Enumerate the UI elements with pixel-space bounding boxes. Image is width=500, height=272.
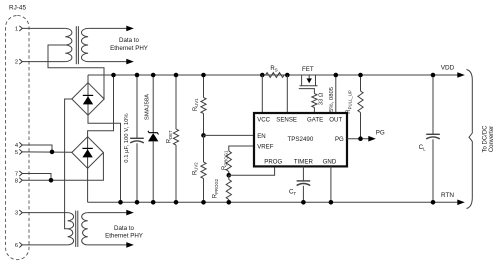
svg-text:PROG: PROG bbox=[264, 158, 282, 165]
resistor RPULL_UP bbox=[360, 75, 362, 91]
wire pins 4/5 to D2 left corner bbox=[22, 151, 72, 153]
RTN arrow bbox=[457, 200, 465, 206]
svg-text:RUV2: RUV2 bbox=[192, 162, 198, 175]
pin stub GND bbox=[330, 166, 332, 202]
svg-text:SENSE: SENSE bbox=[276, 117, 297, 124]
svg-text:Data to: Data to bbox=[114, 225, 135, 232]
svg-text:RUV1: RUV1 bbox=[193, 98, 199, 111]
transformer T1 core bbox=[75, 26, 77, 64]
wire PG output bbox=[347, 138, 369, 140]
node EN junction bbox=[201, 133, 206, 138]
svg-text:GATE: GATE bbox=[307, 117, 323, 124]
wire D1 - output to bottom bus bbox=[88, 115, 121, 202]
resistor RPROG1 bbox=[226, 151, 231, 172]
svg-text:RPROG2: RPROG2 bbox=[213, 178, 219, 198]
resistor RPROG2 bbox=[228, 175, 230, 179]
gate resistor 33 ohm bbox=[312, 94, 317, 108]
svg-text:RS: RS bbox=[270, 66, 277, 72]
svg-text:33 Ω: 33 Ω bbox=[319, 92, 325, 105]
capacitor CL bbox=[432, 75, 434, 134]
wire pin7 bend bbox=[22, 174, 51, 181]
svg-text:RPROG1: RPROG1 bbox=[222, 150, 228, 170]
wire D1 left corner to T2 center tap bbox=[65, 99, 72, 229]
pin stub OUT bbox=[335, 75, 337, 113]
wire D2 - output to bottom bus bbox=[87, 168, 89, 202]
wire PROG bbox=[229, 166, 275, 175]
bottom bus (RTN rail) bbox=[88, 201, 458, 203]
brace to DC/DC converter bbox=[467, 70, 473, 209]
sense resistor RS bbox=[266, 73, 285, 78]
wire T1 center tap to bridge D1 right corner bbox=[48, 45, 104, 99]
svg-text:7: 7 bbox=[15, 172, 18, 178]
transformer T2 primary winding bbox=[68, 213, 74, 245]
wire VREF to RPROG1 bbox=[229, 146, 254, 151]
wire EN bbox=[204, 134, 255, 136]
wire pin1 to T1 top bbox=[22, 27, 65, 29]
wire T1 secondary bottom to PHY arrow bbox=[88, 61, 126, 63]
svg-text:PG: PG bbox=[335, 136, 344, 143]
svg-text:VCC: VCC bbox=[257, 117, 270, 124]
pin stub TIMER / capacitor CT bbox=[302, 166, 304, 181]
resistor RUV1 bbox=[203, 75, 205, 98]
wire top bus to bridge D2 + bbox=[88, 75, 114, 137]
svg-text:FET: FET bbox=[302, 66, 314, 73]
transformer T1 secondary winding bbox=[81, 28, 88, 61]
resistor RDET bbox=[175, 75, 177, 129]
svg-text:8: 8 bbox=[15, 178, 18, 184]
wire T1 secondary top to PHY arrow bbox=[88, 27, 126, 29]
wire T2 secondary top to PHY arrow bbox=[88, 212, 127, 214]
svg-text:2: 2 bbox=[15, 60, 18, 66]
svg-text:RTN: RTN bbox=[441, 192, 454, 199]
bridge rectifier D2 bbox=[72, 137, 104, 169]
transformer T1 primary winding bbox=[65, 28, 72, 61]
svg-text:VDD: VDD bbox=[441, 65, 455, 72]
pin stub VCC bbox=[261, 75, 263, 113]
node pins 7/8 junction bbox=[49, 178, 54, 183]
svg-text:Ethernet PHY: Ethernet PHY bbox=[105, 233, 143, 240]
svg-text:TIMER: TIMER bbox=[294, 158, 314, 165]
svg-text:RDET: RDET bbox=[167, 130, 173, 143]
svg-text:EN: EN bbox=[257, 133, 265, 140]
RJ-45 connector outline bbox=[6, 16, 29, 260]
top bus (positive rail) bbox=[88, 74, 458, 76]
svg-text:0.1 µF, 100 V, 10%: 0.1 µF, 100 V, 10% bbox=[124, 113, 130, 163]
node top bus / D2 feed bbox=[111, 73, 116, 78]
TVS diode SMAJ58A bbox=[152, 75, 154, 133]
svg-text:TPS2490: TPS2490 bbox=[287, 136, 313, 143]
bridge rectifier D1 bbox=[72, 83, 104, 116]
node bottom bus / D1 return bbox=[118, 200, 123, 205]
wire pin3 to T2 top bbox=[22, 212, 67, 214]
wire T2 secondary bottom to PHY arrow bbox=[88, 244, 127, 246]
PG arrow bbox=[368, 136, 376, 142]
transformer T2 core bbox=[75, 211, 77, 247]
svg-text:To DC/DC: To DC/DC bbox=[483, 125, 489, 153]
svg-text:RPULL_UP: RPULL_UP bbox=[346, 90, 352, 114]
pin stub SENSE bbox=[286, 75, 288, 113]
svg-text:RJ-45: RJ-45 bbox=[9, 5, 26, 12]
pin stub GATE bbox=[313, 108, 315, 114]
node pins 4/5 junction bbox=[50, 150, 55, 155]
wire D1 + output to top bus bbox=[87, 75, 89, 83]
svg-text:Converter: Converter bbox=[489, 126, 495, 152]
svg-text:PG: PG bbox=[376, 130, 385, 137]
wire pin6 to T2 bottom bbox=[22, 244, 67, 246]
VDD arrow bbox=[457, 72, 465, 78]
wire pins 7/8 to D2 right corner bbox=[22, 153, 103, 181]
wire pin4 bend bbox=[22, 145, 52, 152]
svg-text:3: 3 bbox=[15, 211, 18, 217]
svg-text:Data to: Data to bbox=[119, 37, 140, 44]
svg-text:5: 5 bbox=[15, 150, 18, 156]
capacitor 0.1uF column bbox=[136, 75, 138, 138]
svg-text:5%, 0805: 5%, 0805 bbox=[329, 86, 335, 112]
wire pin2 to T1 bottom bbox=[22, 61, 65, 63]
svg-text:VREF: VREF bbox=[257, 144, 274, 151]
svg-text:1: 1 bbox=[15, 27, 18, 33]
resistor RUV2 bbox=[203, 135, 205, 162]
transformer T2 secondary winding bbox=[82, 213, 88, 245]
svg-text:6: 6 bbox=[15, 243, 18, 249]
IC U1 TPS2490 bbox=[254, 113, 347, 166]
node PROG junction bbox=[227, 173, 232, 178]
svg-text:SMAJ58A: SMAJ58A bbox=[144, 94, 150, 120]
svg-text:Ethernet PHY: Ethernet PHY bbox=[110, 45, 148, 52]
FET gate lead bbox=[299, 89, 315, 94]
svg-text:OUT: OUT bbox=[329, 117, 342, 124]
svg-text:GND: GND bbox=[323, 158, 337, 165]
